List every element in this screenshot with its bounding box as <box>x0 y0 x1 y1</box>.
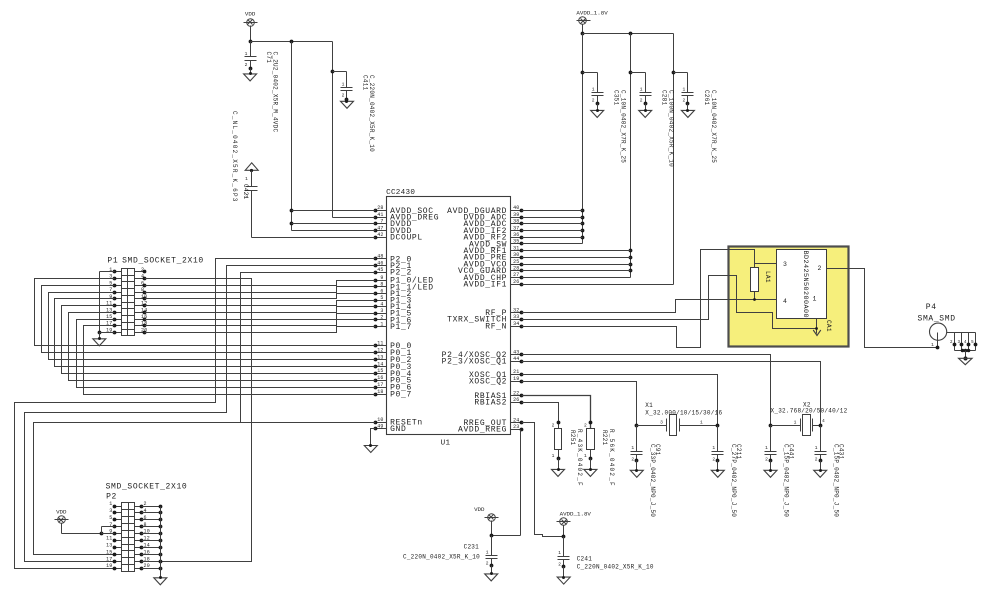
svg-text:C_220N_0402_X5R_K_10: C_220N_0402_X5R_K_10 <box>368 75 375 152</box>
svg-text:SMD_SOCKET_2X10: SMD_SOCKET_2X10 <box>106 482 188 491</box>
svg-text:2: 2 <box>141 267 144 273</box>
svg-text:P4: P4 <box>926 303 937 312</box>
svg-text:C261: C261 <box>703 90 710 106</box>
svg-text:RBIAS2: RBIAS2 <box>474 399 507 408</box>
svg-text:3: 3 <box>660 420 663 426</box>
svg-text:VDD: VDD <box>245 11 256 18</box>
svg-text:44: 44 <box>513 356 519 362</box>
svg-text:C441: C441 <box>788 444 795 460</box>
svg-text:11: 11 <box>377 341 383 347</box>
svg-text:1: 1 <box>712 445 715 451</box>
svg-text:XOSC_Q2: XOSC_Q2 <box>469 378 507 387</box>
svg-text:13: 13 <box>106 543 112 549</box>
svg-text:C_220N_0402_X5R_K_10: C_220N_0402_X5R_K_10 <box>403 554 480 561</box>
svg-text:4: 4 <box>380 302 383 308</box>
svg-text:P0_7: P0_7 <box>390 391 412 400</box>
svg-text:C71: C71 <box>265 52 272 64</box>
svg-text:2: 2 <box>682 98 685 104</box>
svg-text:2: 2 <box>342 93 345 99</box>
svg-text:AVDD_RREG: AVDD_RREG <box>458 426 507 435</box>
svg-text:6: 6 <box>141 280 144 286</box>
svg-text:14: 14 <box>377 361 383 367</box>
svg-text:VDD: VDD <box>56 508 67 515</box>
svg-text:1: 1 <box>558 550 561 556</box>
svg-text:1: 1 <box>552 453 555 459</box>
svg-text:CA1: CA1 <box>825 320 832 332</box>
svg-text:AVDD_1.8V: AVDD_1.8V <box>576 10 608 17</box>
svg-text:C_220N_0402_X5R_K_10: C_220N_0402_X5R_K_10 <box>577 564 654 571</box>
svg-text:12: 12 <box>377 348 383 354</box>
svg-text:2: 2 <box>815 456 818 462</box>
svg-text:C_10N_0402_X7R_K_25: C_10N_0402_X7R_K_25 <box>619 90 626 163</box>
svg-text:36: 36 <box>513 232 519 238</box>
svg-text:3: 3 <box>380 308 383 314</box>
svg-text:18: 18 <box>377 389 383 395</box>
svg-text:GND: GND <box>390 425 406 434</box>
svg-text:3: 3 <box>783 261 787 268</box>
svg-text:2: 2 <box>631 456 634 462</box>
svg-text:17: 17 <box>377 382 383 388</box>
svg-text:13: 13 <box>377 354 383 360</box>
svg-text:1: 1 <box>794 420 797 426</box>
svg-text:1: 1 <box>640 86 643 92</box>
svg-text:U1: U1 <box>441 440 451 448</box>
svg-text:1: 1 <box>245 176 248 182</box>
svg-text:45: 45 <box>377 267 383 273</box>
svg-text:3: 3 <box>109 508 112 514</box>
svg-text:1: 1 <box>700 420 703 426</box>
svg-text:4: 4 <box>964 341 967 345</box>
svg-text:5: 5 <box>971 341 974 345</box>
svg-text:CC2430: CC2430 <box>386 189 415 197</box>
svg-text:24: 24 <box>513 417 519 423</box>
svg-text:C241: C241 <box>577 556 593 563</box>
svg-text:8: 8 <box>380 282 383 288</box>
svg-text:1: 1 <box>342 82 345 88</box>
svg-text:1: 1 <box>584 453 587 459</box>
svg-text:C431: C431 <box>837 444 844 460</box>
svg-text:1: 1 <box>815 445 818 451</box>
svg-text:C91: C91 <box>654 444 661 456</box>
svg-text:48: 48 <box>377 254 383 260</box>
svg-text:LA1: LA1 <box>764 271 771 283</box>
svg-text:33: 33 <box>513 314 519 320</box>
svg-text:2: 2 <box>558 561 561 567</box>
svg-text:C421: C421 <box>242 184 249 200</box>
svg-text:16: 16 <box>377 375 383 381</box>
svg-text:22: 22 <box>513 390 519 396</box>
svg-text:6: 6 <box>380 288 383 294</box>
svg-text:32: 32 <box>513 307 519 313</box>
svg-text:4: 4 <box>783 298 787 305</box>
svg-text:34: 34 <box>513 321 519 327</box>
svg-text:17: 17 <box>106 556 112 562</box>
svg-text:AVDD_1.8V: AVDD_1.8V <box>560 510 592 517</box>
svg-text:38: 38 <box>513 219 519 225</box>
svg-text:2: 2 <box>592 98 595 104</box>
svg-text:43: 43 <box>513 349 519 355</box>
svg-text:1: 1 <box>931 342 934 348</box>
svg-text:7: 7 <box>380 219 383 225</box>
svg-text:R251: R251 <box>569 430 576 446</box>
svg-text:11: 11 <box>106 536 112 542</box>
svg-text:C281: C281 <box>660 90 667 106</box>
svg-text:X_32.768/20/50/40/12: X_32.768/20/50/40/12 <box>771 408 848 415</box>
svg-text:R221: R221 <box>601 430 608 446</box>
svg-text:41: 41 <box>377 212 383 218</box>
svg-text:23: 23 <box>513 424 519 430</box>
svg-text:RF_N: RF_N <box>485 323 507 332</box>
svg-text:47: 47 <box>377 225 383 231</box>
svg-text:R_56K_0402_F: R_56K_0402_F <box>608 429 615 487</box>
svg-text:VDD: VDD <box>474 506 485 513</box>
svg-text:P1: P1 <box>107 257 118 266</box>
svg-text:X_32.000/10/15/30/16: X_32.000/10/15/30/16 <box>645 410 722 417</box>
svg-text:30: 30 <box>513 252 519 258</box>
svg-text:2: 2 <box>486 561 489 567</box>
svg-text:15: 15 <box>377 368 383 374</box>
svg-text:R_43K_0402_F: R_43K_0402_F <box>576 429 583 487</box>
svg-text:C231: C231 <box>464 544 480 551</box>
svg-text:5: 5 <box>109 515 112 521</box>
svg-text:35: 35 <box>513 239 519 245</box>
svg-text:SMA_SMD: SMA_SMD <box>918 315 956 324</box>
svg-text:SMD_SOCKET_2X10: SMD_SOCKET_2X10 <box>122 257 204 266</box>
svg-text:C211: C211 <box>735 444 742 460</box>
svg-text:1: 1 <box>109 501 112 507</box>
svg-text:C351: C351 <box>612 90 619 106</box>
svg-text:46: 46 <box>377 260 383 266</box>
svg-text:C_10N_0402_X7R_K_25: C_10N_0402_X7R_K_25 <box>710 90 717 163</box>
svg-text:28: 28 <box>513 266 519 272</box>
svg-text:26: 26 <box>513 279 519 285</box>
svg-text:2: 2 <box>818 265 822 272</box>
svg-text:2: 2 <box>950 341 953 345</box>
svg-text:1: 1 <box>682 86 685 92</box>
svg-text:37: 37 <box>513 225 519 231</box>
svg-text:1: 1 <box>592 86 595 92</box>
svg-text:P2_3/XOSC_Q1: P2_3/XOSC_Q1 <box>442 358 507 367</box>
svg-text:39: 39 <box>513 212 519 218</box>
svg-text:1: 1 <box>813 296 817 303</box>
svg-text:28: 28 <box>377 205 383 211</box>
svg-text:AVDD_IF1: AVDD_IF1 <box>463 281 507 290</box>
svg-text:P1_7: P1_7 <box>390 323 412 332</box>
svg-text:1: 1 <box>631 445 634 451</box>
svg-text:2: 2 <box>380 315 383 321</box>
svg-text:1: 1 <box>245 51 248 57</box>
svg-text:5: 5 <box>380 295 383 301</box>
svg-text:C411: C411 <box>362 75 369 91</box>
svg-text:8: 8 <box>141 287 144 293</box>
svg-text:DCOUPL: DCOUPL <box>390 234 423 243</box>
svg-text:2: 2 <box>552 423 555 429</box>
svg-text:3: 3 <box>957 341 960 345</box>
svg-text:C_NL_0402_X5R_K_6P3: C_NL_0402_X5R_K_6P3 <box>231 111 238 203</box>
svg-text:4: 4 <box>144 508 147 514</box>
svg-text:2: 2 <box>245 62 248 68</box>
svg-text:C_100N_0402_X5R_K_10: C_100N_0402_X5R_K_10 <box>667 90 674 167</box>
svg-text:C_2U2_0402_X5R_M_4VDC: C_2U2_0402_X5R_M_4VDC <box>272 52 279 133</box>
svg-text:4: 4 <box>822 418 825 424</box>
svg-text:1: 1 <box>765 445 768 451</box>
svg-text:26: 26 <box>513 397 519 403</box>
svg-text:40: 40 <box>513 205 519 211</box>
svg-text:27: 27 <box>513 272 519 278</box>
svg-text:2: 2 <box>584 423 587 429</box>
svg-text:2: 2 <box>765 456 768 462</box>
svg-text:1: 1 <box>486 549 489 555</box>
svg-text:31: 31 <box>513 245 519 251</box>
svg-text:15: 15 <box>106 549 112 555</box>
svg-text:19: 19 <box>106 563 112 569</box>
svg-text:X1: X1 <box>645 402 653 409</box>
svg-text:2: 2 <box>640 98 643 104</box>
svg-text:25: 25 <box>513 259 519 265</box>
svg-text:9: 9 <box>380 275 383 281</box>
svg-text:2: 2 <box>712 456 715 462</box>
svg-text:42: 42 <box>377 232 383 238</box>
svg-text:21: 21 <box>513 369 519 375</box>
svg-text:19: 19 <box>513 376 519 382</box>
svg-text:1: 1 <box>380 321 383 327</box>
svg-text:49: 49 <box>377 424 383 430</box>
svg-text:BD2425N50200A00: BD2425N50200A00 <box>801 251 809 318</box>
svg-text:10: 10 <box>377 417 383 423</box>
svg-text:4: 4 <box>141 274 144 280</box>
